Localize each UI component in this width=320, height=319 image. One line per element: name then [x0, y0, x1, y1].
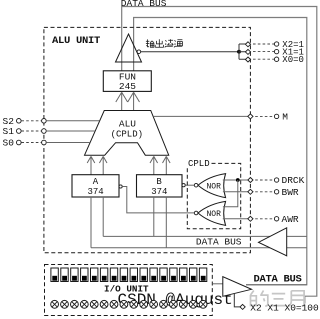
dashed box CPLD [187, 163, 240, 228]
svg-text:BWR: BWR [282, 187, 299, 198]
buffer U6 (bus driver, points right) [223, 277, 252, 297]
wire: U6 enable tap [234, 293, 240, 307]
clock bubble of B [182, 184, 185, 187]
switch K1 [51, 300, 59, 308]
node X0 [245, 57, 250, 62]
LED L13 [170, 268, 177, 282]
svg-text:ALU UNIT: ALU UNIT [52, 35, 100, 47]
wire: M output [153, 115, 248, 117]
output bubble of U4B [194, 211, 198, 215]
switch K8 [120, 300, 128, 308]
svg-text:374: 374 [151, 187, 167, 197]
svg-text:CPLD: CPLD [188, 159, 210, 169]
switch K15 [189, 300, 197, 308]
LED L16 [199, 268, 206, 282]
svg-text:DATA BUS: DATA BUS [121, 0, 167, 9]
LED L15 [190, 268, 197, 282]
LED L5 [91, 268, 98, 282]
switch K14 [179, 300, 187, 308]
LED L1 [51, 268, 58, 282]
LED L9 [130, 268, 137, 282]
svg-text:M: M [282, 112, 288, 123]
svg-text:374: 374 [88, 187, 104, 197]
wire: middle data bus lower line [91, 247, 307, 249]
wire: B data inputs from bus [153, 197, 155, 236]
svg-text:DATA BUS: DATA BUS [196, 237, 242, 248]
dashed box ALU UNIT [44, 27, 251, 252]
wire: A clock from NOR2 [122, 187, 194, 213]
svg-text:A: A [93, 177, 99, 187]
wire: ALU to FUN arrows [116, 92, 140, 110]
svg-text:245: 245 [119, 81, 136, 92]
wire: DRCK input to U4A [223, 179, 248, 181]
wire: B clock from NOR1 [185, 184, 194, 186]
switch K5 [90, 300, 98, 308]
buffer U1 (tri-state output buffer) [116, 34, 142, 62]
wire S1 to ALU [46, 130, 95, 132]
switch K16 [199, 300, 207, 308]
wire: DRCK to U4B upper input [223, 180, 238, 207]
svg-text:DATA BUS: DATA BUS [254, 274, 302, 286]
LED L10 [140, 268, 147, 282]
svg-text:X0=0: X0=0 [282, 55, 304, 65]
node DRCK [248, 178, 253, 183]
node BWR [248, 189, 253, 194]
svg-text:NOR: NOR [207, 210, 222, 219]
switch K4 [80, 300, 88, 308]
svg-text:S0: S0 [3, 138, 15, 149]
watermark 的三月 [251, 291, 305, 307]
node X1 [245, 49, 250, 54]
LED L8 [120, 268, 127, 282]
LED L12 [160, 268, 167, 282]
junction DRCK fanout [236, 178, 240, 182]
LED L14 [180, 268, 187, 282]
wire: top outer DATA BUS run [122, 7, 317, 304]
enable bubble of U1 [137, 50, 141, 54]
wire: AWR input to U4B [223, 218, 248, 220]
wire: B register outputs to ALU (arrows) [150, 156, 170, 174]
wire: A register outputs to ALU (arrows) [87, 156, 107, 174]
svg-text:S1: S1 [3, 126, 15, 137]
switch K10 [140, 300, 148, 308]
LED L6 [100, 268, 107, 282]
switch K3 [71, 300, 79, 308]
clock bubble of A [119, 185, 122, 188]
svg-text:X2 X1 X0=100: X2 X1 X0=100 [250, 302, 319, 313]
switch K9 [130, 300, 138, 308]
svg-text:AWR: AWR [282, 214, 299, 225]
node X2 X1 X0=100 [240, 304, 245, 309]
switch K2 [61, 300, 69, 308]
wire S2 to ALU [46, 120, 99, 122]
svg-text:(CPLD): (CPLD) [111, 129, 143, 139]
wire: A data inputs from bus [90, 197, 92, 248]
register B 374 [137, 175, 183, 197]
LED L7 [110, 268, 117, 282]
ALU (CPLD) U3 [85, 111, 169, 156]
NOR gate U4B (points left) [198, 201, 226, 225]
node X2 [245, 42, 250, 47]
FUN 245 box U2 [103, 71, 151, 92]
node M [248, 114, 253, 119]
wire: enable fanout bracket [239, 44, 248, 59]
svg-text:NOR: NOR [207, 182, 222, 191]
svg-text:B: B [156, 177, 162, 187]
wire: U6 output to data bus [246, 284, 307, 286]
wire: output enable line [141, 51, 239, 53]
LED L2 [61, 268, 68, 282]
wire: I/O unit to bus driver [212, 283, 223, 285]
junction at output-enable split [237, 50, 241, 54]
switch K11 [150, 300, 158, 308]
wire: middle data bus upper line [103, 235, 307, 237]
svg-text:DRCK: DRCK [282, 175, 305, 186]
output bubble of U4A [194, 183, 198, 187]
wire: top inner DATA BUS run [134, 18, 307, 285]
switch K12 [160, 300, 168, 308]
node AWR [248, 216, 253, 221]
wire: BWR input to U4A [223, 191, 248, 193]
dashed box I/O UNIT [45, 265, 213, 316]
buffer U5 (bus receiver, points left) [259, 228, 287, 256]
svg-text:ALU: ALU [119, 118, 136, 129]
switch K13 [170, 300, 178, 308]
NOR gate U4A (points left) [198, 174, 226, 198]
wire S0 to ALU [46, 142, 90, 144]
register A 374 [72, 175, 119, 197]
svg-text:I/O UNIT: I/O UNIT [104, 284, 149, 295]
label 输出选通 [146, 39, 183, 47]
LED L3 [71, 268, 78, 282]
switch K6 [100, 300, 108, 308]
LED L11 [150, 268, 157, 282]
switch K7 [110, 300, 118, 308]
LED L4 [81, 268, 88, 282]
